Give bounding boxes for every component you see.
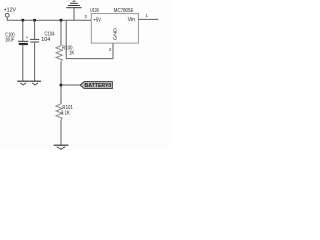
wire divider lower [60,120,62,145]
resistor R100 [56,46,62,62]
ground bottom chevron [57,147,65,150]
svg-text:1: 1 [145,13,148,18]
ground bottom bar [54,144,69,146]
svg-text:10UF: 10UF [5,38,14,44]
ground C100 bar [17,80,29,82]
svg-text:3.1K: 3.1K [61,111,70,117]
power symbol bar 1 [73,0,76,2]
svg-text:3: 3 [85,14,88,19]
svg-text:+12V: +12V [4,8,17,14]
power symbol bar 4 [66,7,81,9]
svg-text:BATTERY0: BATTERY0 [85,83,112,89]
wire to port [61,84,80,86]
pin Vin wire [138,18,158,20]
wire power stem [73,8,75,20]
svg-text:2: 2 [109,47,112,52]
capacitor C100 top plate [18,40,28,42]
wire top rail [7,19,92,21]
wire regulator ground net horizontal [66,58,113,60]
wire terminal stem [6,17,8,20]
port BATTERY0 [80,82,112,89]
wire C104 upper [34,20,36,39]
junction dot C100 [21,19,24,22]
wire divider upper [60,20,62,46]
svg-text:MC7805E: MC7805E [114,8,134,14]
power symbol bar 2 [70,2,78,4]
junction dot divider [60,19,63,22]
wire regulator ground net vertical from rail [65,20,67,58]
capacitor C100 bottom plate [19,43,29,45]
svg-text:+: + [26,35,29,40]
svg-text:1K: 1K [69,50,75,56]
power terminal circle [5,13,9,17]
capacitor C104 bottom plate [30,41,39,43]
svg-text:Vin: Vin [128,17,136,23]
svg-text:GND: GND [113,28,118,40]
wire C100 lower [22,45,24,81]
power symbol bar 3 [68,5,80,7]
ground C104 bar [29,80,41,82]
ground C104 chevron [32,83,38,85]
wire C100 upper [22,20,24,41]
capacitor C104 top plate [30,38,39,40]
wire C104 lower [34,42,36,81]
wire regulator ground pin [112,43,114,58]
regulator U100 box (MC7805E) [91,14,138,43]
junction dot C104 [33,19,36,22]
svg-text:+5V: +5V [93,17,101,23]
svg-text:104: 104 [41,37,50,43]
svg-text:U100: U100 [90,8,99,14]
wire divider middle [60,62,62,104]
ground C100 chevron [20,83,26,85]
resistor R101 [56,104,62,120]
junction dot port [60,84,63,87]
